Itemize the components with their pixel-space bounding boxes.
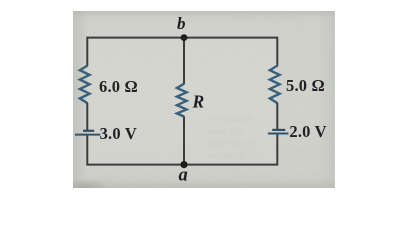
svg-text:adt ni batsll: adt ni batsll [210, 114, 252, 124]
outer band tint (area between circuit loop and scan edge) [73, 11, 335, 188]
svg-text:to muze sit of isupe: to muze sit of isupe [240, 23, 311, 33]
battery V2 2.0 V : long thin plate (bottom) [268, 133, 289, 135]
svg-text:3.0 V: 3.0 V [100, 124, 137, 143]
wire: top wire from top-left corner through node b to top-right corner [87, 37, 277, 39]
battery V2 2.0 V : short thick plate (top) [272, 129, 285, 131]
svg-text:niod la: niod la [283, 96, 308, 106]
svg-text:a: a [179, 166, 188, 186]
resistor R2 5.0 ohm (zigzag) [270, 66, 280, 104]
svg-text:umit adt no visitum: umit adt no visitum [232, 12, 302, 22]
scan grain overlay [73, 11, 335, 188]
svg-text:R: R [192, 91, 205, 111]
ghost print-through texture [92, 12, 311, 185]
svg-text:sini tsti: sini tsti [283, 108, 310, 118]
svg-text:ai b tase lk: ai b tase lk [208, 150, 247, 160]
wire: right branch lower segment (battery V2 down to bottom-right corner) [276, 134, 278, 165]
wire: right branch upper segment (top-right corner down to resistor top) [276, 37, 278, 66]
svg-text:di bas: di bas [283, 44, 305, 54]
wire: middle branch lower segment (resistor R down to node a) [183, 116, 185, 164]
resistor R1 6.0 ohm (zigzag) [80, 66, 90, 104]
svg-text:zwolf tsdi aec: zwolf tsdi aec [206, 138, 256, 148]
svg-text:oitsle sdT: oitsle sdT [208, 126, 244, 136]
wire: left branch between resistor R1 and battery V1 [86, 103, 88, 130]
svg-text:6.0 Ω: 6.0 Ω [99, 77, 138, 96]
resistor R (zigzag, middle branch) [177, 84, 187, 117]
svg-text:d to sut: d to sut [283, 155, 310, 165]
svg-text:d tastri: d tastri [283, 144, 308, 154]
svg-text:st eft: st eft [92, 175, 110, 185]
wire: left branch lower segment (battery V1 down to bottom-left corner) [86, 136, 88, 166]
wire: left branch upper segment (corner b-side down to resistor top) [86, 37, 88, 66]
battery V1 3.0 V : long thin plate (bottom) [75, 134, 100, 136]
wire: middle branch upper segment (node b down to resistor R) [183, 38, 185, 85]
battery V1 3.0 V : short thick plate (top) [83, 130, 94, 132]
node b (junction dot, top) [181, 34, 188, 41]
node a (junction dot, bottom) [180, 161, 187, 168]
wire: bottom wire from bottom-left corner through node a to bottom-right corner [87, 164, 277, 166]
wire: right branch between resistor R2 and battery V2 [276, 103, 278, 129]
svg-text:2.0 V: 2.0 V [289, 122, 326, 141]
svg-text:b: b [177, 14, 186, 33]
svg-text:5.0 Ω: 5.0 Ω [286, 76, 325, 95]
svg-text:han sh: han sh [283, 56, 307, 66]
